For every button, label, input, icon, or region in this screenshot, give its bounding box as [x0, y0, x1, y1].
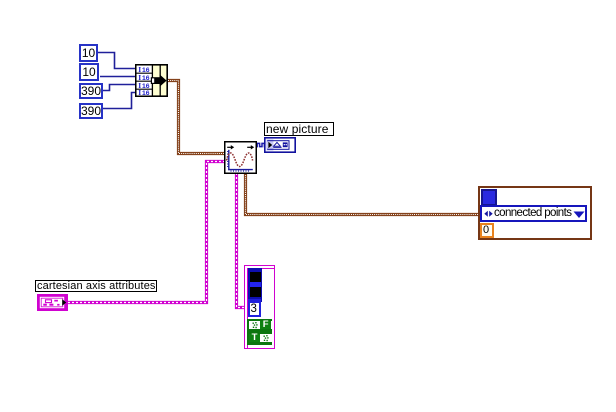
boolean T constant — [249, 334, 272, 342]
wire cluster brown: bundle output to XY plot icon — [168, 81, 224, 154]
wire W1: constant 10 #1 to bundle input 1 (I16 blue) — [98, 53, 136, 69]
svg-text:16: 16 — [142, 83, 150, 90]
enum dropdown "connected points" — [480, 205, 587, 222]
label "cartesian axis attributes" — [35, 280, 157, 292]
top-right arrow — [247, 146, 251, 148]
enum text — [494, 206, 571, 221]
wire W2: constant 10 #2 to bundle input 2 — [100, 76, 136, 78]
svg-text:I: I — [138, 88, 141, 97]
wire W4: constant 390 #2 to bundle input 4 — [103, 93, 136, 109]
bottom cluster constant (magenta frame) — [244, 265, 275, 349]
numeric constant 390 (first) — [79, 83, 103, 99]
wire picture (blue zigzag): XY icon output to picture indicator — [256, 143, 265, 146]
enum dropdown triangle — [573, 211, 585, 219]
bundle function node — [135, 64, 168, 97]
wire W3: constant 390 #1 to bundle input 3 — [103, 85, 136, 91]
enum inc/dec glyph — [484, 210, 493, 218]
bundle arrow glyph — [151, 77, 161, 84]
numeric 3 with blue frame — [248, 299, 261, 317]
wire cluster magenta: cartesian axis attributes constant to XY icon left — [68, 162, 224, 303]
dark red sine curve — [227, 153, 253, 167]
wire cluster magenta: bottom cluster constant to XY icon bottom — [237, 173, 245, 308]
svg-text:16: 16 — [142, 67, 150, 74]
I16 type labels — [138, 65, 150, 97]
boolean F constant — [249, 321, 272, 330]
numeric constant 10 (second) — [79, 63, 99, 81]
svg-text:16: 16 — [142, 75, 150, 82]
svg-text:16: 16 — [142, 90, 150, 97]
top-left arrow — [227, 146, 231, 148]
blue axes — [228, 150, 230, 170]
numeric "0" in cluster — [480, 223, 494, 238]
label "new picture" — [264, 122, 334, 136]
color box constant (blue) inside cluster — [481, 189, 497, 206]
color box array (navy block with two black elements) — [248, 268, 263, 302]
picture indicator terminal — [264, 137, 296, 153]
connected points cluster indicator (outer brown frame) — [478, 186, 592, 240]
boolean constants block (green) — [247, 319, 272, 345]
XY plot VI icon — [224, 141, 257, 174]
wire cluster brown: XY plot icon bottom to connected-points cluster indicator — [246, 173, 480, 215]
numeric constant 390 (second) — [79, 103, 103, 119]
cartesian axis attributes cluster constant — [37, 294, 68, 311]
numeric constant 10 (first) — [79, 44, 98, 62]
